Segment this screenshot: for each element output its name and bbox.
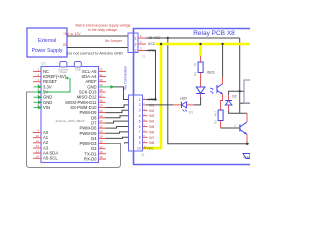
- svg-text:IN3: IN3: [149, 114, 154, 118]
- svg-text:30: 30: [100, 78, 104, 82]
- svg-text:IN8: IN8: [149, 141, 154, 145]
- node JD-VCC branch: [167, 37, 169, 39]
- svg-text:LED: LED: [180, 97, 187, 101]
- wire D2 cathode to JD-VCC: [229, 91, 244, 94]
- wire D2 anode to collector net: [229, 111, 247, 114]
- svg-text:22: 22: [100, 119, 104, 123]
- svg-text:29: 29: [100, 83, 104, 87]
- wire VCC drop to J2 pin10: [143, 44, 162, 148]
- wire Q1 emitter down: [246, 134, 248, 144]
- svg-text:IN5: IN5: [149, 125, 154, 129]
- U1 left pin stubs red: [33, 71, 41, 158]
- svg-text:21: 21: [100, 124, 104, 128]
- node emitter junction: [246, 143, 248, 145]
- wire D7 to IN4: [106, 121, 129, 123]
- svg-text:2: 2: [135, 43, 137, 47]
- wire JD-VCC horizontal: [146, 37, 240, 39]
- wire D10 to IN1: [106, 105, 129, 108]
- U1 left pin green arrows: [34, 86, 42, 109]
- op-amp ISO1 optocoupler: [196, 71, 222, 95]
- svg-text:Relay PCB X8: Relay PCB X8: [193, 30, 235, 37]
- svg-text:R3: R3: [214, 120, 218, 124]
- svg-text:R2: R2: [193, 72, 197, 76]
- wire green 5V to IOREF annotation: [44, 78, 70, 92]
- svg-text:32: 32: [100, 68, 104, 72]
- svg-text:IN6: IN6: [149, 130, 154, 134]
- wire Q1 collector up: [246, 113, 248, 122]
- svg-text:14: 14: [36, 155, 40, 159]
- svg-text:27: 27: [100, 93, 104, 97]
- wire VCC yellow rail: [156, 43, 250, 46]
- svg-text:A5-SCL: A5-SCL: [43, 156, 58, 161]
- svg-text:+5V or 12V: +5V or 12V: [63, 32, 81, 36]
- svg-text:VIN: VIN: [43, 105, 50, 110]
- svg-text:16: 16: [100, 150, 104, 154]
- wire IN1 to opto chain: [146, 104, 173, 106]
- resistor R2: [193, 56, 203, 87]
- connector J2: [129, 95, 145, 157]
- wire +V from power supply to J1 pin1: [63, 32, 128, 36]
- wire D9 to IN2: [106, 110, 129, 112]
- svg-text:10: 10: [137, 146, 141, 150]
- svg-text:3: 3: [139, 109, 141, 113]
- svg-text:7: 7: [139, 130, 141, 134]
- wire D1 to ISO1 cathode: [194, 97, 201, 105]
- svg-text:9: 9: [139, 141, 141, 145]
- svg-text:D2: D2: [232, 95, 236, 99]
- svg-text:2: 2: [139, 103, 141, 107]
- svg-text:IN7: IN7: [149, 136, 154, 140]
- port Relay bottom right: [243, 154, 251, 160]
- wire R3 to Q1 base: [221, 127, 240, 129]
- svg-text:6: 6: [139, 125, 141, 129]
- svg-text:0V: 0V: [63, 43, 68, 47]
- wire JD-VCC vertical to relay: [239, 38, 241, 113]
- wire D3 loop around arduino: [27, 92, 121, 168]
- svg-text:3: 3: [135, 49, 137, 53]
- diode D2: [225, 95, 236, 111]
- svg-text:Match external power supply vo: Match external power supply voltage: [75, 24, 130, 28]
- wire D6 to IN5: [106, 127, 129, 129]
- wire D5 to IN6: [106, 132, 129, 133]
- svg-text:4: 4: [139, 114, 141, 118]
- svg-text:Do not connect to Arduino GND: Do not connect to Arduino GND: [67, 50, 123, 55]
- wire GND J1 to J2: [146, 51, 156, 100]
- svg-text:ISO1: ISO1: [207, 71, 215, 75]
- svg-text:10: 10: [36, 134, 40, 138]
- svg-text:VCC: VCC: [147, 147, 155, 151]
- U1 left pin labels: [43, 69, 67, 161]
- svg-text:20: 20: [100, 129, 104, 133]
- svg-text:J2: J2: [141, 153, 145, 157]
- wire VCC drop to R2: [199, 44, 202, 56]
- svg-text:11: 11: [36, 139, 39, 143]
- svg-text:17: 17: [100, 145, 104, 149]
- svg-text:IN4: IN4: [149, 120, 154, 124]
- svg-text:18: 18: [100, 140, 104, 144]
- sheet symbol Relay PCB X8: [134, 29, 251, 165]
- wire ISO1 collector to VCC rail: [222, 44, 224, 77]
- svg-text:8: 8: [139, 136, 141, 140]
- svg-text:15: 15: [100, 155, 104, 159]
- wire 0V from power supply to J1 pin3: [63, 43, 128, 48]
- svg-text:25: 25: [100, 104, 104, 108]
- svg-text:1K: 1K: [193, 63, 197, 67]
- resistor R3: [214, 110, 224, 128]
- U1 left pin numbers: [36, 68, 40, 159]
- svg-text:31: 31: [100, 73, 104, 77]
- svg-text:VCC: VCC: [148, 42, 156, 46]
- svg-text:IN2: IN2: [149, 109, 154, 113]
- wire D8 to IN3: [106, 116, 129, 118]
- svg-text:RX-D0: RX-D0: [84, 157, 97, 162]
- svg-text:26: 26: [100, 99, 104, 103]
- wire JD-VCC down branch: [168, 38, 249, 144]
- svg-text:External: External: [38, 38, 56, 44]
- wire IN8 stub link: [125, 142, 129, 145]
- svg-text:28: 28: [100, 88, 104, 92]
- U1 right pin labels: [65, 69, 97, 162]
- svg-text:5: 5: [139, 119, 141, 123]
- svg-text:12: 12: [36, 144, 40, 148]
- J2 pin stubs: [143, 100, 148, 149]
- svg-text:U1: U1: [42, 62, 46, 66]
- svg-text:No Jumper: No Jumper: [105, 39, 123, 43]
- node JD-VCC relay junction: [239, 90, 241, 92]
- svg-text:1: 1: [139, 98, 141, 102]
- relay K1: [244, 80, 252, 103]
- svg-text:No Connection: No Connection: [124, 66, 128, 90]
- wire relay coil low side: [240, 102, 250, 104]
- U1 right pin numbers: [100, 68, 104, 160]
- svg-text:13: 13: [36, 149, 40, 153]
- svg-text:USB: USB: [75, 67, 81, 71]
- J1 pin stubs: [138, 38, 146, 51]
- J2 pin labels: [147, 98, 157, 151]
- svg-text:23: 23: [100, 114, 104, 118]
- svg-text:19: 19: [100, 135, 104, 139]
- wire ISO1 emitter down to R3: [221, 94, 223, 110]
- svg-text:24: 24: [100, 109, 104, 113]
- U1 right pin stubs red: [99, 71, 107, 159]
- transistor Q1: [240, 122, 247, 134]
- svg-text:J1: J1: [142, 55, 146, 59]
- svg-text:Relay: Relay: [244, 155, 251, 159]
- wire GND arduino to J2 pin1: [114, 87, 129, 100]
- note: match voltage: [75, 24, 130, 33]
- svg-text:GND: GND: [148, 98, 156, 102]
- svg-text:D1: D1: [189, 111, 193, 115]
- connector J1: [128, 33, 146, 59]
- J1 pin labels: [148, 36, 161, 52]
- IC U1 Arduino Uno: [41, 62, 99, 163]
- svg-text:1: 1: [135, 36, 137, 40]
- wire D4 to IN7: [106, 137, 129, 138]
- svg-text:to the relay voltage.: to the relay voltage.: [88, 28, 118, 32]
- U1 right GND green arrow: [99, 86, 114, 88]
- LED D1: [173, 97, 194, 115]
- power supply PS1 box: [27, 28, 67, 57]
- svg-text:Power Supply: Power Supply: [32, 48, 63, 54]
- svg-text:Arduino_UNO_REV3: Arduino_UNO_REV3: [55, 119, 84, 123]
- node VCC rail junctions: [160, 43, 224, 45]
- node GND junction: [154, 98, 156, 100]
- svg-text:4K7: 4K7: [214, 111, 218, 117]
